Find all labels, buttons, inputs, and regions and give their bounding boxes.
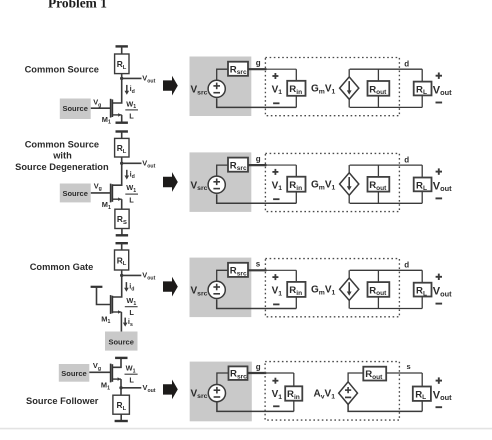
label W1/L (row 3) bbox=[125, 296, 138, 317]
wire: source lead with arrow (row 1) bbox=[113, 113, 122, 117]
two-port dashed boundary bbox=[265, 153, 399, 211]
label - of Vout bbox=[436, 102, 443, 104]
dependent current source GmV1 bbox=[340, 278, 359, 300]
faint page rule at bottom bbox=[0, 428, 492, 430]
wire: Vsrc top to Rsrc bbox=[217, 69, 228, 80]
wire: source down to input block (row 3) bbox=[120, 312, 122, 332]
ground symbol (row 4) bbox=[115, 414, 128, 421]
wire: Rout to bottom rail bbox=[377, 96, 379, 108]
wire: Vsrc bottom rail to Rin bottom (row 4) bbox=[217, 402, 294, 411]
wire: Vsrc top to Rsrc (row 4) bbox=[217, 373, 229, 385]
resistor RL (row 1) bbox=[115, 54, 129, 74]
svg-text:Source: Source bbox=[62, 189, 87, 198]
resistor Rout bbox=[368, 177, 390, 192]
current arrow id (row 2) bbox=[125, 170, 130, 180]
wire: output bottom rail bbox=[350, 202, 423, 204]
label - of Vout bbox=[436, 303, 443, 305]
wire: bias bar to gate (row 3) bbox=[97, 287, 111, 305]
wire: VDD to RL (row 3) bbox=[121, 243, 123, 250]
wire: output node to Vout (row 2) bbox=[122, 162, 142, 164]
source block gray background bbox=[190, 57, 252, 117]
dependent current source GmV1 bbox=[340, 173, 359, 195]
dependent current source GmV1 bbox=[340, 77, 359, 99]
junction: output node (row 1) bbox=[120, 77, 123, 80]
voltage source Vsrc bbox=[208, 281, 225, 298]
resistor RL (row 4) bbox=[113, 395, 129, 414]
wire: source top stub to Rout (row 4) bbox=[348, 373, 363, 382]
wire: current source top stub bbox=[348, 270, 350, 278]
resistor Rout bbox=[368, 81, 390, 96]
wire: Rout to RL top (row 4) bbox=[386, 372, 422, 374]
current arrow id (row 3) bbox=[124, 282, 129, 292]
svg-text:s: s bbox=[256, 260, 261, 269]
VDD supply bar (row 2) bbox=[116, 130, 128, 132]
wire: drain up to VDD (row 4) bbox=[113, 358, 121, 367]
wire: drain to output node (row 3) bbox=[113, 275, 122, 297]
wire: source lead with arrow (row 4) bbox=[113, 377, 121, 381]
wire: branch into RL (row 4) bbox=[421, 373, 423, 387]
block arrow row 2 bbox=[163, 172, 178, 192]
svg-text:L: L bbox=[129, 195, 134, 204]
label + of Vout bbox=[436, 168, 442, 174]
wire: Rsrc to node g (bold segment) bbox=[248, 68, 267, 70]
gate bias supply bar (row 3) bbox=[91, 286, 103, 288]
label + of V1 bbox=[272, 73, 278, 79]
wire: Vsrc top to Rsrc bbox=[217, 270, 228, 281]
label + of Vout bbox=[436, 274, 442, 280]
resistor RL (load) bbox=[414, 283, 432, 298]
wire: Vsrc top to Rsrc bbox=[217, 165, 228, 176]
transistor gate bar bbox=[110, 295, 112, 314]
resistor Rsrc bbox=[228, 62, 248, 77]
resistor RL (row 3) bbox=[115, 250, 129, 270]
wire: drain to output node bbox=[113, 78, 122, 103]
wire: source lead with arrow (row 2) bbox=[113, 197, 122, 201]
wire: branch into Rout bbox=[377, 69, 379, 81]
wire: gate lead (row 1) bbox=[91, 107, 111, 109]
wire: current source bottom stub bbox=[348, 300, 350, 308]
svg-text:L: L bbox=[129, 111, 134, 120]
wire: output top rail bbox=[350, 164, 423, 166]
current arrow id (row 1) bbox=[125, 85, 130, 95]
wire: node s to Rin top bbox=[266, 269, 296, 271]
resistor Rin (row 4) bbox=[285, 386, 302, 401]
svg-text:Problem 1: Problem 1 bbox=[48, 0, 107, 11]
resistor Rin bbox=[287, 81, 305, 96]
two-port dashed boundary bbox=[265, 259, 399, 317]
wire: output node to Vout (row 4) bbox=[121, 387, 141, 389]
label - of V1 bbox=[273, 102, 279, 104]
wire: RL to bottom rail (row 4) bbox=[421, 401, 423, 412]
label + of V1 (row 4) bbox=[272, 378, 278, 384]
wire: output node to RL (row 4) bbox=[120, 388, 122, 395]
svg-text:Common Source: Common Source bbox=[25, 140, 99, 150]
svg-text:L: L bbox=[129, 376, 134, 385]
wire: current source top stub bbox=[348, 69, 350, 77]
wire: output node to Vout bbox=[122, 77, 142, 79]
voltage source Vsrc bbox=[208, 80, 225, 97]
resistor RL (load) bbox=[414, 82, 432, 97]
resistor Rout bbox=[368, 282, 390, 297]
transistor channel bar bbox=[111, 184, 113, 202]
label - of Vout (row 4) bbox=[436, 406, 443, 408]
svg-text:d: d bbox=[404, 155, 409, 164]
source block gray background bbox=[190, 258, 252, 318]
wire: branch into Rout bbox=[377, 165, 379, 177]
resistor Rsrc (row 4) bbox=[229, 366, 248, 380]
wire: current source bottom stub bbox=[348, 195, 350, 203]
wire: current source top stub bbox=[348, 165, 350, 173]
wire: Rsrc to node g (bold segment) bbox=[248, 164, 267, 166]
wire: branch into RL bbox=[421, 270, 423, 282]
wire: branch into Rout bbox=[377, 270, 379, 282]
svg-text:s: s bbox=[407, 362, 411, 371]
block arrow row 3 bbox=[163, 277, 178, 297]
resistor Rsrc bbox=[228, 158, 248, 173]
label - of V1 (row 4) bbox=[273, 405, 279, 407]
wire: Rsrc to node s (bold segment) bbox=[248, 269, 267, 271]
ground symbol (row 2) bbox=[116, 229, 128, 236]
ROW 2 stage label: Common Source with Source Degeneration bbox=[15, 140, 109, 173]
input source block (row 1) bbox=[60, 99, 91, 120]
input source block (row 4) bbox=[59, 364, 90, 382]
wire: branch into RL bbox=[421, 69, 423, 81]
svg-text:g: g bbox=[256, 155, 261, 164]
VDD supply bar (row 3) bbox=[116, 242, 128, 244]
wire: output bottom rail bbox=[350, 106, 423, 108]
wire: RL to bottom rail bbox=[421, 191, 423, 203]
svg-text:Common Source: Common Source bbox=[25, 65, 99, 75]
wire: node g to Rin top (row 4) bbox=[266, 372, 294, 374]
svg-text:g: g bbox=[256, 59, 261, 68]
wire: branch into Rin bbox=[295, 270, 297, 282]
wire: branch into Rin (row 4) bbox=[293, 373, 295, 386]
wire: output top rail bbox=[350, 68, 423, 70]
wire: source to output node (row 4) bbox=[120, 379, 122, 388]
resistor RL (load, row 4) bbox=[413, 387, 431, 402]
VDD supply bar (row 1) bbox=[116, 45, 128, 47]
resistor RL (load) bbox=[414, 178, 432, 193]
wire: RL to bottom rail bbox=[421, 297, 423, 309]
svg-text:Source: Source bbox=[62, 104, 87, 113]
transistor channel bar bbox=[111, 296, 113, 314]
input source block (row 2) bbox=[60, 184, 91, 203]
wire: Rin to bottom rail (row 4) bbox=[293, 401, 295, 412]
two-port dashed boundary bbox=[265, 58, 399, 116]
transistor gate bar bbox=[110, 99, 112, 118]
resistor Rin bbox=[287, 177, 305, 192]
source block gray background bbox=[190, 152, 252, 212]
wire: VDD to RL (row 2) bbox=[121, 132, 123, 139]
svg-text:with: with bbox=[52, 151, 72, 161]
wire: Vsrc bottom rail to Rin bottom bbox=[217, 98, 297, 107]
label + of V1 bbox=[272, 274, 278, 280]
resistor RS (degeneration) bbox=[115, 209, 129, 228]
label - of V1 bbox=[273, 198, 279, 200]
wire: output bottom rail bbox=[350, 308, 423, 310]
voltage source Vsrc bbox=[208, 176, 225, 193]
wire: node g to Rin top bbox=[266, 164, 296, 166]
wire: RL to output node (row 2) bbox=[121, 157, 123, 163]
wire: VDD to RL bbox=[121, 46, 123, 54]
wire: drain to output node (row 2) bbox=[113, 163, 122, 185]
resistor RL (row 2) bbox=[115, 138, 129, 157]
wire: Rsrc to node g (bold segment, row 4) bbox=[248, 372, 267, 374]
wire: Rin to bottom rail bbox=[295, 192, 297, 204]
svg-text:L: L bbox=[129, 308, 134, 317]
wire: output top rail bbox=[350, 269, 423, 271]
wire: Vsrc bottom rail to Rin bottom bbox=[217, 194, 297, 203]
transistor gate bar bbox=[110, 364, 112, 383]
label - of Vout bbox=[436, 197, 443, 199]
wire: source lead with arrow (row 3) bbox=[113, 310, 122, 314]
dependent voltage source AvV1 bbox=[339, 382, 358, 405]
wire: Rout to bottom rail bbox=[377, 192, 379, 204]
current arrow is (row 3) bbox=[123, 318, 128, 327]
svg-text:Source Degeneration: Source Degeneration bbox=[15, 162, 109, 172]
voltage source Vsrc (row 4) bbox=[208, 385, 225, 402]
transistor gate bar bbox=[110, 184, 112, 203]
wire: branch into Rin bbox=[295, 165, 297, 177]
wire: source bottom stub and bottom rail (row 4) bbox=[348, 404, 422, 411]
svg-text:Source Follower: Source Follower bbox=[26, 396, 99, 406]
wire: Rin to bottom rail bbox=[295, 297, 297, 309]
resistor Rin bbox=[287, 282, 305, 297]
wire: branch into RL bbox=[421, 165, 423, 177]
svg-text:Source: Source bbox=[108, 337, 133, 346]
wire: gate lead (row 4) bbox=[89, 371, 110, 373]
junction: output node (row 4) bbox=[119, 386, 122, 389]
wire: branch into Rin bbox=[295, 69, 297, 81]
resistor Rsrc bbox=[228, 263, 248, 278]
wire: RL to output node (row 3) bbox=[121, 270, 123, 275]
wire: Rout to bottom rail bbox=[377, 297, 379, 309]
svg-text:g: g bbox=[256, 362, 261, 371]
label W1/L (row 2) bbox=[125, 183, 138, 204]
wire: gate lead (row 2) bbox=[91, 192, 111, 194]
transistor channel bar bbox=[111, 364, 113, 382]
VDD supply bar (row 4) bbox=[115, 357, 127, 359]
wire: current source bottom stub bbox=[348, 99, 350, 107]
wire: Vsrc bottom rail to Rin bottom bbox=[217, 299, 297, 308]
label W1/L (row 4) bbox=[125, 364, 138, 385]
label + of Vout (row 4) bbox=[436, 377, 442, 383]
wire: node g to Rin top bbox=[266, 68, 296, 70]
svg-text:d: d bbox=[404, 59, 409, 68]
label W1/L (row 1) bbox=[125, 99, 138, 120]
two-port dashed boundary (row 4) bbox=[265, 362, 399, 421]
wire: output node to Vout (row 3) bbox=[122, 274, 142, 276]
label + of Vout bbox=[436, 73, 442, 79]
resistor Rout (row 4, series) bbox=[363, 367, 386, 381]
svg-text:d: d bbox=[404, 261, 409, 270]
wire: RL to output node bbox=[121, 74, 123, 79]
wire: source to RS (row 2) bbox=[121, 199, 123, 209]
wire: Rin to bottom rail bbox=[295, 96, 297, 108]
input source block (row 3) bbox=[105, 332, 138, 351]
junction: output node (row 3) bbox=[120, 274, 123, 277]
wire: RL to bottom rail bbox=[421, 95, 423, 107]
block arrow row 1 bbox=[163, 76, 178, 96]
source block gray background (row 4) bbox=[190, 362, 252, 422]
block arrow row 4 bbox=[163, 380, 178, 400]
junction: output node (row 2) bbox=[120, 162, 123, 165]
svg-text:Common Gate: Common Gate bbox=[30, 262, 94, 272]
svg-text:Source: Source bbox=[61, 369, 86, 378]
ground symbol (row 1) bbox=[116, 115, 128, 123]
transistor channel bar bbox=[111, 99, 113, 117]
label - of V1 bbox=[273, 303, 279, 305]
label + of V1 bbox=[272, 169, 278, 175]
